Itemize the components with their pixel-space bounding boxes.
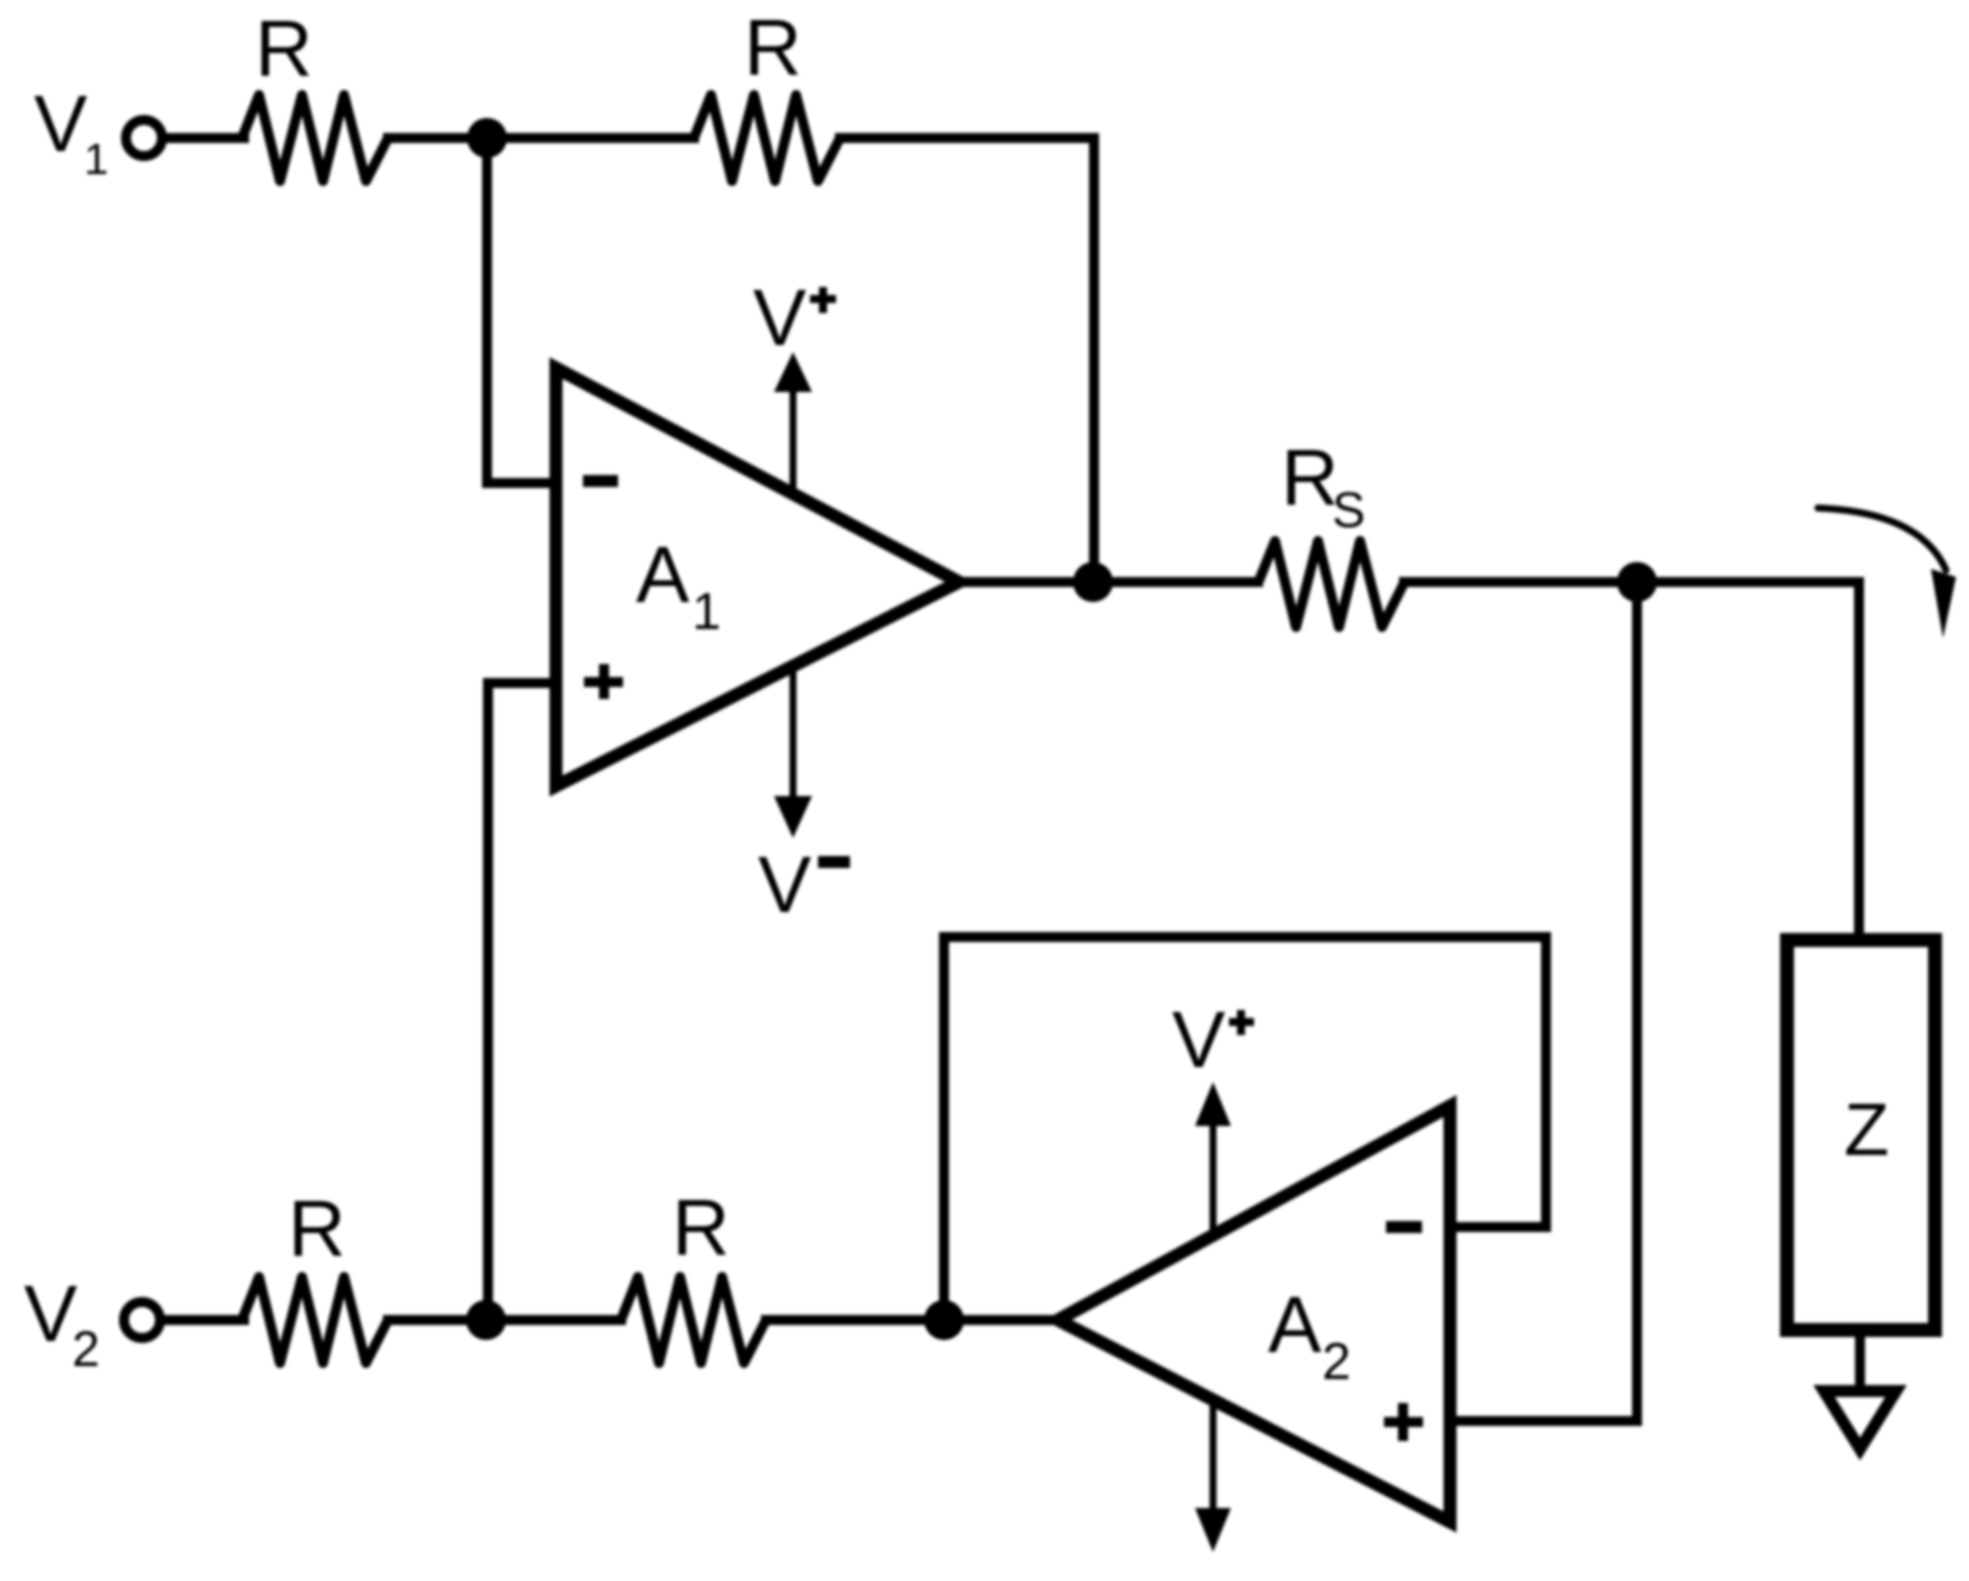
- supply V- arrow A1: [790, 666, 797, 798]
- resistor R4: [621, 1277, 766, 1363]
- wire R3 to R4 through node N2: [388, 1315, 621, 1325]
- svg-text:2: 2: [72, 1321, 100, 1377]
- svg-text:Z: Z: [1844, 1088, 1889, 1171]
- wire A2 feedback loop (output node to inverting input): [944, 937, 1546, 1320]
- wire load node down to A2 non-inverting input: [1450, 582, 1637, 1421]
- svg-text:A: A: [636, 530, 690, 619]
- plus sign A2 non-inverting input: [1384, 1403, 1423, 1441]
- svg-text:V: V: [753, 273, 807, 362]
- svg-text:V: V: [758, 840, 812, 929]
- terminal V2: [124, 1302, 160, 1338]
- svg-text:1: 1: [692, 583, 721, 641]
- ground: [1824, 1391, 1896, 1449]
- wire R4 to A2 output through node N3: [766, 1315, 1058, 1325]
- resistor Rs: [1258, 541, 1404, 627]
- svg-text:V: V: [24, 1269, 78, 1358]
- resistor R3: [242, 1277, 388, 1363]
- svg-text:R: R: [255, 4, 313, 93]
- wire Rs to load corner: [1404, 582, 1859, 933]
- node A1 output junction dot: [1073, 562, 1113, 602]
- resistor R2: [694, 95, 840, 181]
- svg-text:2: 2: [1322, 1333, 1351, 1391]
- minus sign A2 inverting input: [1386, 1221, 1422, 1233]
- svg-text:V: V: [34, 79, 88, 168]
- svg-text:A: A: [1268, 1280, 1322, 1369]
- op-amp A1: [556, 368, 959, 786]
- wire A1 non-inverting input down to node N2: [488, 683, 556, 1320]
- node N2 junction dot: [466, 1300, 506, 1340]
- wire V2 terminal to R3: [165, 1315, 244, 1325]
- terminal V1: [126, 120, 162, 156]
- svg-text:S: S: [1332, 482, 1365, 538]
- svg-text:R: R: [672, 1183, 730, 1272]
- wire Z to ground: [1855, 1334, 1865, 1388]
- node N1 junction dot: [467, 118, 507, 158]
- wire node N1 to A1 inverting input: [487, 138, 556, 483]
- wire V1 terminal to R1: [167, 133, 244, 143]
- node load junction dot: [1617, 562, 1657, 602]
- svg-text:R: R: [1281, 433, 1339, 522]
- svg-text:V: V: [1172, 995, 1226, 1084]
- svg-text:R: R: [288, 1184, 346, 1273]
- impedance Z: [1787, 940, 1935, 1330]
- supply V+ arrow A1: [790, 388, 797, 494]
- supply V+ arrow A2: [1210, 1126, 1217, 1235]
- node N3 junction dot: [924, 1300, 964, 1340]
- wire R1 to R2 through node N1: [388, 133, 694, 143]
- minus sign A1 inverting input: [583, 475, 618, 487]
- svg-text:1: 1: [84, 135, 108, 184]
- wire A1 output to Rs: [959, 577, 1258, 587]
- supply V- arrow A2: [1210, 1400, 1217, 1506]
- plus sign A1 non-inverting input: [584, 664, 623, 699]
- op-amp A2: [1058, 1106, 1450, 1522]
- current direction arc arrow: [1818, 508, 1946, 570]
- resistor R1: [242, 95, 388, 181]
- svg-text:R: R: [744, 3, 802, 92]
- wire R2 to A1 output node (feedback): [840, 138, 1094, 582]
